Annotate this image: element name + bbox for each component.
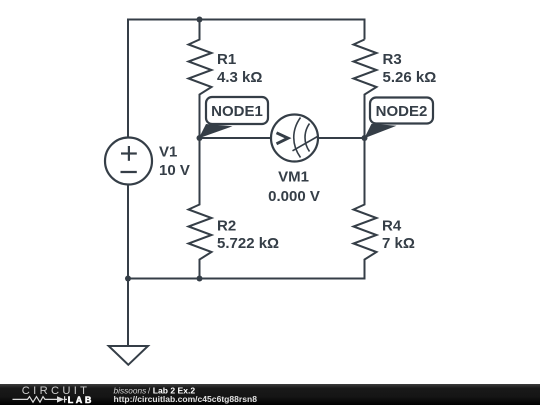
label R2 value <box>217 217 279 252</box>
logo LAB text <box>68 395 94 405</box>
label R4 value <box>382 217 415 252</box>
node NODE2 junction <box>362 135 368 141</box>
voltmeter VM1 needle <box>293 137 318 151</box>
node NODE2 pointer <box>364 124 396 138</box>
voltmeter VM1 polarity mark <box>277 133 289 144</box>
svg-text:R1: R1 <box>217 51 236 68</box>
ground <box>109 279 148 365</box>
svg-text:4.3 kΩ: 4.3 kΩ <box>217 69 262 86</box>
voltage source V1 <box>105 138 152 185</box>
resistor R1 <box>189 20 212 139</box>
svg-text:NODE1: NODE1 <box>211 103 263 120</box>
node junction ground tap <box>125 276 131 282</box>
svg-text:R4: R4 <box>382 217 402 234</box>
svg-text:7 kΩ: 7 kΩ <box>382 235 415 252</box>
label V1 value <box>159 144 190 180</box>
svg-text:V1: V1 <box>159 144 177 161</box>
wire top rail <box>128 20 365 138</box>
wire node1 to voltmeter <box>200 137 272 139</box>
svg-text:10 V: 10 V <box>159 162 190 179</box>
label R3 value <box>383 51 437 86</box>
svg-text:5.722 kΩ: 5.722 kΩ <box>217 235 279 252</box>
node junction R2 bottom <box>197 276 203 282</box>
svg-text:NODE2: NODE2 <box>376 103 428 120</box>
resistor R2 <box>189 138 212 279</box>
resistor R4 <box>354 138 377 279</box>
label VM1 value <box>268 169 320 205</box>
footer bar <box>0 384 540 405</box>
wire bottom rail <box>128 185 365 279</box>
node NODE1 junction <box>197 135 203 141</box>
svg-text:http://circuitlab.com/c45c6tg8: http://circuitlab.com/c45c6tg88rsn8 <box>114 394 258 404</box>
svg-text:5.26 kΩ: 5.26 kΩ <box>383 69 437 86</box>
footer title line <box>114 386 196 396</box>
wire voltmeter to node2 <box>318 137 365 139</box>
svg-text:0.000 V: 0.000 V <box>268 188 320 205</box>
node junction top <box>197 17 203 23</box>
footer url line <box>114 394 258 404</box>
svg-text:R3: R3 <box>383 51 402 68</box>
node NODE2 label <box>370 98 433 124</box>
logo resistor-diode glyph <box>13 396 68 402</box>
svg-text:R2: R2 <box>217 217 236 234</box>
logo CIRCUIT text <box>22 385 90 397</box>
svg-text:LAB: LAB <box>68 395 94 405</box>
node NODE1 pointer <box>199 124 233 138</box>
label R1 value <box>217 51 262 86</box>
svg-text:VM1: VM1 <box>278 169 309 186</box>
resistor R3 <box>354 40 377 139</box>
voltmeter VM1 meter arcs <box>294 118 310 158</box>
node NODE1 label <box>206 97 268 124</box>
voltmeter VM1 <box>271 115 318 162</box>
